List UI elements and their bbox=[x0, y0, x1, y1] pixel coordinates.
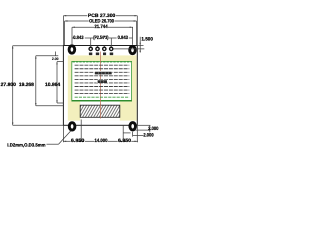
svg-text:OLED 26.700: OLED 26.700 bbox=[89, 18, 114, 24]
svg-text:PCB 27.300: PCB 27.300 bbox=[88, 13, 116, 19]
svg-text:0.843: 0.843 bbox=[118, 35, 129, 41]
svg-text:1.500: 1.500 bbox=[141, 36, 153, 42]
svg-text:2.00: 2.00 bbox=[52, 57, 59, 61]
svg-text:19.268: 19.268 bbox=[19, 82, 34, 88]
svg-text:0.843: 0.843 bbox=[73, 35, 84, 41]
svg-text:14.000: 14.000 bbox=[95, 138, 108, 144]
svg-text:10.864: 10.864 bbox=[45, 82, 60, 88]
svg-text:2.000: 2.000 bbox=[143, 132, 154, 138]
svg-text:I.D2mm,O.D3.5mm: I.D2mm,O.D3.5mm bbox=[7, 142, 45, 147]
svg-text:21.744: 21.744 bbox=[94, 24, 108, 30]
svg-text:2.000: 2.000 bbox=[148, 126, 159, 132]
svg-text:6.850: 6.850 bbox=[118, 138, 131, 144]
svg-text:(P2.54*3): (P2.54*3) bbox=[93, 35, 108, 41]
svg-text:27.800: 27.800 bbox=[1, 82, 17, 88]
svg-text:6.850: 6.850 bbox=[71, 138, 85, 144]
